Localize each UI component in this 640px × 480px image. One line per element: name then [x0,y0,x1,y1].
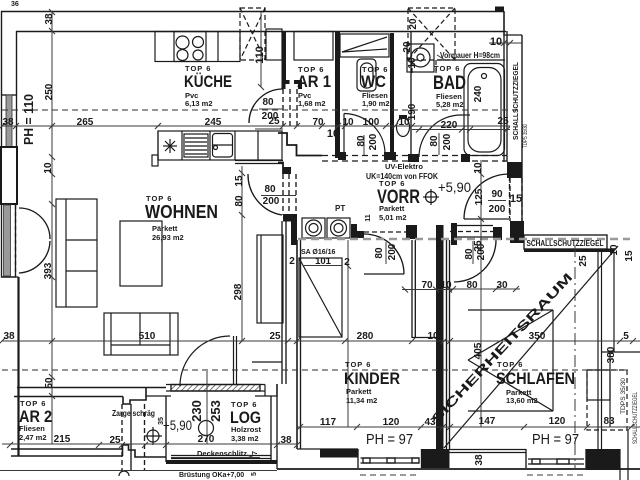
entry niche jamb black [493,227,502,240]
level dashed gray thick line hall [298,238,630,241]
svg-text:10: 10 [43,162,54,174]
sicherheitsraum diagonal [444,246,618,448]
dim line rooms y427 [297,426,640,428]
svg-text:1,68 m2: 1,68 m2 [298,99,326,108]
WC shelf cabinet [340,34,389,57]
svg-text:510: 510 [139,331,156,342]
svg-text:10: 10 [490,36,502,48]
svg-text:253: 253 [208,400,223,422]
fraction line bad door [438,133,440,155]
dishwasher K3 [184,134,208,157]
wall WC-BAD bottom dashed [322,155,507,157]
svg-text:TOP 6: TOP 6 [497,360,523,369]
level dashed line lower rooms [2,369,628,371]
bottom dashed under windows [360,474,420,476]
svg-text:6,13 m2: 6,13 m2 [185,99,213,108]
svg-text:UK=140cm von FFOK: UK=140cm von FFOK [366,172,438,181]
svg-text:KINDER: KINDER [344,369,400,388]
svg-text:KÜCHE: KÜCHE [184,72,232,91]
svg-text:1,90 m2: 1,90 m2 [362,99,390,108]
svg-text:10: 10 [327,128,339,140]
svg-text:90: 90 [491,189,503,200]
wall right black segment [507,162,522,178]
svg-text:+5,90: +5,90 [438,179,471,195]
AR2 door bottom semicircle [119,471,129,476]
axis dash-dot x575 [574,245,576,470]
dim 70-10 line kinder [402,289,452,291]
svg-text:38: 38 [3,331,15,342]
svg-text:Brüstung OKa+7,00: Brüstung OKa+7,00 [179,472,244,479]
svg-text:15: 15 [624,250,635,262]
bathtub [464,64,505,156]
svg-text:200: 200 [442,133,453,150]
svg-text:10: 10 [609,244,620,256]
svg-text:TOP 6: TOP 6 [345,360,371,369]
svg-text:220: 220 [441,120,458,131]
svg-text:Holzrost: Holzrost [231,425,262,434]
svg-text:+5,90: +5,90 [163,417,192,433]
wire top-right wall step [504,12,522,36]
level marker AR2-LOG crosshair [147,430,159,442]
svg-text:TDPS 35/30: TDPS 35/30 [620,378,627,414]
svg-text:10: 10 [407,57,418,69]
svg-text:38: 38 [280,435,292,446]
toilet WC [357,59,376,91]
wire right outer wall [521,35,523,222]
svg-text:405: 405 [473,342,484,359]
fraction line kitchen door [259,108,282,110]
svg-text:50: 50 [44,377,55,389]
svg-text:TOP 6: TOP 6 [434,64,460,73]
svg-text:200: 200 [368,133,379,150]
svg-text:380: 380 [606,346,617,363]
wall KUECHE right black upper [282,31,287,80]
door SCHLAFEN swing arc [454,240,496,282]
svg-text:2: 2 [344,257,350,268]
vormauer line [437,59,505,61]
door D4 wohnen jamb black [283,167,291,174]
door BAD jamb black left [408,154,419,162]
fraction line kinder door [385,242,387,264]
svg-text:BAD: BAD [433,73,466,94]
dim vertical x52 [51,12,53,444]
svg-text:80: 80 [356,135,367,147]
svg-text:7: 7 [252,451,259,455]
wall AR1 left black [335,31,340,158]
wall LOG top step [255,384,277,396]
svg-text:25: 25 [109,435,121,446]
svg-text:SA Ø16/16: SA Ø16/16 [301,249,335,256]
svg-text:11: 11 [365,214,372,222]
svg-text:265: 265 [77,117,94,128]
door WC jamb black right [384,152,396,160]
hatch box dashed bad duct [408,8,455,60]
svg-text:5: 5 [251,472,258,476]
entry door jamb black [451,223,457,245]
dim line bottom y445 [2,443,297,445]
bed SCHLAFEN cross [468,309,553,311]
svg-text:120: 120 [549,416,566,427]
wire dashed line beside glazing [15,205,17,276]
counter left cap [152,155,158,166]
washer PT 2 [327,218,350,238]
dim 101 underline [303,265,342,267]
fraction line schlafen door [472,241,474,264]
svg-text:10: 10 [342,117,354,128]
svg-text:101: 101 [315,256,332,267]
door D3 kuechen jambs black [282,80,290,89]
top right tick [501,40,507,46]
svg-text:240: 240 [473,85,484,102]
svg-text:SCHLAFEN: SCHLAFEN [496,369,575,388]
svg-text:100: 100 [363,117,380,128]
level dashed line PH110 [2,109,520,111]
svg-text:125: 125 [474,188,485,205]
svg-text:80: 80 [429,135,440,147]
counter cell [217,32,219,62]
wall wohnen-vorr horizontal lines [235,160,283,162]
door D3 kueche swing arc [249,89,283,123]
shaft KINDER rect with diagonal [299,258,342,337]
svg-text:WOHNEN: WOHNEN [145,202,218,222]
svg-text:80: 80 [262,97,274,108]
washing machine BAD [407,44,434,72]
door KINDER jamb black left [351,224,364,238]
loggia LOG window band [171,385,260,392]
hatch box dashed kitchen duct [240,8,265,60]
wall bottom double line under 38 [449,449,526,451]
AR1 cabinet [294,32,333,61]
dim vertical x261 kitchen [260,12,262,87]
svg-text:250: 250 [44,83,55,100]
svg-text:36: 36 [11,1,19,8]
svg-text:13,60 m2: 13,60 m2 [506,396,538,405]
door D3 kueche opening dashed [282,89,284,128]
svg-text:15: 15 [234,175,245,187]
wall LOG right [270,396,272,462]
svg-text:WC: WC [361,72,386,91]
door80200 line wc [255,128,283,130]
washbasin BAD small [397,118,410,137]
wall LOG door frame lines [233,336,235,385]
svg-text:PT: PT [335,204,345,213]
svg-text:80: 80 [234,195,245,207]
wall vormauer lines [410,31,412,156]
kitchen lower counter [158,131,282,160]
door D4 wohnen-vorr dashed opening [282,174,284,215]
door KINDER opening dashed [364,231,406,233]
door ENTRY swing [464,218,509,220]
wall wohnen niche line [252,361,282,363]
door LOG swing arc [180,336,230,386]
fraction line entry door [488,200,506,202]
cabinet tall WOHNEN [257,235,283,323]
dim vertical x481 [480,160,482,427]
svg-text:20: 20 [408,18,419,30]
svg-text:38: 38 [474,454,485,466]
door D1 left double-door swing arcs [19,208,50,239]
window W2 left french door glazing [2,204,16,277]
wall AR2 top lines [17,387,166,389]
svg-text:25: 25 [578,255,589,267]
entry niche lines [457,225,493,227]
svg-text:Parkett: Parkett [379,204,405,213]
svg-text:190: 190 [407,103,418,120]
sofa2 WOHNEN [104,313,178,355]
dim line top y126 [2,125,510,127]
wall bath right lines [503,11,505,162]
svg-text:15: 15 [510,193,522,205]
svg-text:200: 200 [489,204,506,215]
svg-text:80: 80 [264,184,276,195]
wire bottom outer wall line [277,468,640,470]
svg-text:80: 80 [466,280,478,291]
svg-text:Vormauer H=98cm: Vormauer H=98cm [440,51,500,60]
svg-text:3,38 m2: 3,38 m2 [231,434,259,443]
wall pier bottom right black [586,449,620,470]
svg-text:Zarge schräg: Zarge schräg [112,409,155,418]
wall schlafen left black [436,225,444,449]
svg-text:11,34 m2: 11,34 m2 [346,396,377,405]
stove K1 [174,32,206,62]
svg-text:245: 245 [205,117,222,128]
svg-text:Deckenschlitz: Deckenschlitz [197,449,247,458]
wire top inner wall line [16,31,506,33]
svg-text:298: 298 [233,283,244,300]
wall left lower line [17,277,19,456]
svg-text:10: 10 [440,280,452,291]
wall WC right black [390,33,394,156]
vormauer leader [437,55,445,60]
svg-text:TDPS 35/30: TDPS 35/30 [522,124,529,148]
wire left inner wall upper [16,31,18,95]
svg-text:10: 10 [473,162,484,174]
svg-text:SCHALLSCHUTZZIEGEL: SCHALLSCHUTZZIEGEL [527,238,604,248]
door BAD jamb black right [461,154,470,162]
svg-text:200: 200 [476,243,487,260]
schallschutz box top-right [524,235,607,249]
deckenschlitz leader [171,457,260,459]
wc door dim line [363,135,365,155]
svg-text:38: 38 [2,117,14,128]
svg-text:120: 120 [383,417,400,428]
wall kinder left double [296,240,298,449]
svg-text:2: 2 [289,256,295,267]
wall right dashed cavity [509,178,511,221]
svg-text:280: 280 [357,331,374,342]
wire top outer wall line [1,11,504,13]
door KINDER jamb black right [406,225,417,239]
wall vorr left black [291,221,297,245]
svg-text:200: 200 [263,196,280,207]
svg-text:30: 30 [496,280,508,291]
door WC swing arc [343,114,345,154]
svg-text:70: 70 [421,280,433,291]
window W1 left glazing [2,95,17,147]
sofa1 WOHNEN [56,199,97,307]
fraction line wohnen door [261,195,296,197]
svg-text:270: 270 [198,434,215,445]
wall right black L [510,221,535,243]
door WC jamb black left [338,152,346,160]
svg-text:2,47 m2: 2,47 m2 [19,433,47,442]
partition KINDER thin wall [411,240,413,338]
dim line bad door y129 [412,129,510,131]
door D2 AR2 jamb dashed [121,404,123,470]
wire LOG left wall [165,396,167,462]
counter box right of duct [266,29,282,60]
svg-text:5,01 m2: 5,01 m2 [379,213,407,222]
wire left outer wall upper [1,11,3,95]
svg-text:20: 20 [402,41,413,53]
wall AR2 bottom lines [11,448,123,450]
svg-text:80: 80 [374,247,385,259]
wall wohnen right double [281,221,283,384]
wall kueche bottom jamb steps [278,133,322,156]
svg-text:PH = 97: PH = 97 [532,431,579,448]
dim vertical x242 wohnen [241,166,243,341]
wall vorr bottom jamb black [283,214,297,222]
kitchen upper counter [155,32,240,62]
svg-text:200: 200 [387,243,398,260]
window W3 KINDER [357,449,359,468]
svg-text:AR 1: AR 1 [297,72,331,91]
wall pier left [1,147,17,204]
svg-text:26,93 m2: 26,93 m2 [152,233,184,242]
counter cells right [234,131,236,160]
svg-text:200: 200 [262,111,279,122]
svg-text:215: 215 [54,434,71,445]
svg-text:393: 393 [43,262,54,279]
window W4 SCHLAFEN [525,449,527,468]
svg-text:10: 10 [427,331,439,342]
right side structure lines [597,251,599,469]
svg-text:SCHALLSCHUTZZIEGEL: SCHALLSCHUTZZIEGEL [511,62,520,140]
svg-text:5,28 m2: 5,28 m2 [436,100,464,109]
svg-text:25: 25 [269,331,281,342]
door BAD swing arc [419,115,461,157]
svg-text:UV-Elektro: UV-Elektro [385,162,423,171]
dim 80-30 line schlafen [449,288,520,290]
svg-text:117: 117 [320,417,337,428]
fridge K2 snowflake [157,131,159,160]
wall pier bottom black [422,449,450,468]
svg-text:PH = 110: PH = 110 [21,94,36,145]
door SCHLAFEN opening dashed [450,231,496,233]
table WOHNEN [120,221,162,286]
svg-text:350: 350 [529,331,546,342]
svg-text:83: 83 [603,416,615,427]
svg-text:SCHALLSCHUTZZIEGEL: SCHALLSCHUTZZIEGEL [633,392,639,444]
svg-text:38: 38 [44,13,55,25]
svg-text:Pärkett: Pärkett [152,224,178,233]
svg-text:25: 25 [497,116,509,127]
sink K4 [209,131,211,160]
svg-text:Fliesen: Fliesen [19,424,45,433]
svg-text:5: 5 [623,331,629,342]
level marker VORR [426,192,437,203]
door D4 swing arc [248,174,282,215]
dim vertical log x207 [206,371,208,444]
wall KINDER bottom left black [297,448,358,450]
svg-text:Parkett: Parkett [346,387,372,396]
svg-text:147: 147 [479,416,496,427]
svg-text:PH = 97: PH = 97 [366,431,413,448]
svg-text:70: 70 [312,117,324,128]
washer PT 1 [302,218,325,238]
dim vertical x348 kinder [347,240,349,427]
door KINDER swing arc [364,234,404,274]
wall LOG bottom lines [171,455,271,457]
dim line mid y341 [2,340,640,342]
level marker LOG big circle [199,421,214,436]
svg-text:110: 110 [254,46,266,64]
